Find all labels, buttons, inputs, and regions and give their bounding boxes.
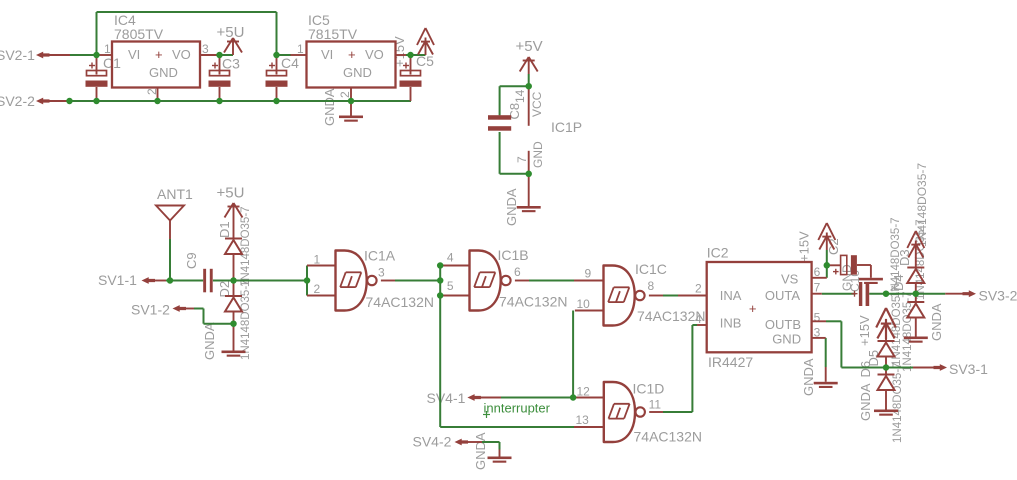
svg-text:D1: D1 — [217, 221, 232, 238]
svg-text:IR4427: IR4427 — [708, 354, 753, 370]
svg-text:4: 4 — [447, 250, 454, 264]
svg-text:+5U: +5U — [217, 24, 245, 41]
svg-text:+5V: +5V — [516, 38, 543, 55]
svg-text:GND: GND — [343, 65, 372, 80]
svg-text:IC1D: IC1D — [633, 380, 665, 396]
svg-text:1: 1 — [104, 42, 111, 56]
svg-text:7: 7 — [515, 156, 529, 163]
svg-text:1N4148DO35-7: 1N4148DO35-7 — [902, 291, 914, 372]
svg-text:2: 2 — [338, 91, 352, 98]
svg-text:INB: INB — [720, 316, 742, 331]
svg-text:IC1P: IC1P — [551, 119, 582, 135]
svg-text:VS: VS — [781, 272, 799, 287]
svg-text:+: + — [348, 47, 356, 62]
svg-text:IC1B: IC1B — [498, 247, 529, 263]
svg-text:C4: C4 — [281, 55, 299, 71]
svg-text:3: 3 — [378, 266, 385, 280]
svg-text:IC2: IC2 — [707, 245, 729, 261]
svg-text:11: 11 — [649, 398, 662, 412]
svg-text:GNDA: GNDA — [858, 383, 873, 421]
svg-text:74AC132N: 74AC132N — [634, 429, 703, 445]
svg-text:OUTB: OUTB — [765, 317, 801, 332]
svg-text:14: 14 — [513, 89, 527, 103]
svg-text:1N4148DO35-7: 1N4148DO35-7 — [240, 279, 252, 360]
svg-text:1: 1 — [297, 42, 304, 56]
svg-text:3: 3 — [202, 42, 209, 56]
svg-text:C9: C9 — [184, 252, 199, 269]
svg-text:10: 10 — [577, 297, 591, 311]
svg-text:7: 7 — [814, 281, 821, 295]
svg-text:GND: GND — [149, 65, 178, 80]
svg-text:SV4-1: SV4-1 — [427, 390, 466, 406]
svg-text:5: 5 — [447, 279, 454, 293]
svg-text:SV2-2: SV2-2 — [0, 93, 35, 109]
svg-text:7815TV: 7815TV — [308, 26, 358, 42]
svg-text:+: + — [155, 47, 163, 62]
svg-text:GNDA: GNDA — [801, 358, 816, 396]
svg-text:GND: GND — [531, 141, 545, 168]
svg-text:D6: D6 — [858, 361, 873, 378]
svg-text:GNDA: GNDA — [202, 322, 217, 360]
svg-text:8: 8 — [648, 279, 655, 293]
svg-text:IC1A: IC1A — [364, 248, 396, 264]
svg-text:+5U: +5U — [217, 185, 245, 202]
svg-text:2: 2 — [695, 282, 702, 296]
svg-text:SV3-1: SV3-1 — [949, 361, 988, 377]
svg-text:GND: GND — [772, 332, 801, 347]
svg-text:+: + — [749, 301, 757, 316]
svg-text:9: 9 — [585, 267, 592, 281]
svg-text:IC1C: IC1C — [635, 261, 667, 277]
svg-text:VI: VI — [321, 47, 333, 62]
svg-text:74AC132N: 74AC132N — [499, 294, 568, 310]
svg-text:+15V: +15V — [857, 315, 872, 346]
svg-text:74AC132N: 74AC132N — [366, 294, 435, 310]
svg-text:6: 6 — [514, 265, 521, 279]
svg-text:INA: INA — [720, 288, 742, 303]
svg-text:ANT1: ANT1 — [157, 186, 193, 202]
svg-text:OUTA: OUTA — [765, 288, 800, 303]
svg-text:VO: VO — [365, 47, 384, 62]
svg-text:7805TV: 7805TV — [114, 26, 164, 42]
svg-text:VCC: VCC — [530, 91, 544, 117]
svg-text:1N4148DO35-7: 1N4148DO35-7 — [240, 206, 252, 287]
svg-text:SV2-1: SV2-1 — [0, 47, 35, 63]
svg-text:SV3-2: SV3-2 — [979, 287, 1017, 303]
svg-text:1: 1 — [314, 253, 321, 267]
svg-text:+15V: +15V — [797, 231, 812, 262]
svg-text:SV1-2: SV1-2 — [131, 302, 170, 318]
svg-text:GNDA: GNDA — [929, 303, 944, 341]
svg-text:innterrupter: innterrupter — [484, 401, 551, 416]
svg-text:13: 13 — [576, 413, 590, 427]
svg-text:SV4-2: SV4-2 — [413, 433, 452, 449]
svg-text:GNDA: GNDA — [322, 88, 337, 126]
svg-text:SV1-1: SV1-1 — [98, 272, 137, 288]
svg-text:VI: VI — [128, 47, 140, 62]
svg-text:12: 12 — [577, 385, 591, 399]
svg-text:C3: C3 — [222, 56, 240, 72]
svg-text:4: 4 — [695, 312, 702, 326]
svg-text:VO: VO — [172, 47, 191, 62]
svg-text:2: 2 — [314, 282, 321, 296]
svg-text:5: 5 — [814, 311, 821, 325]
svg-text:GNDA: GNDA — [473, 432, 488, 470]
